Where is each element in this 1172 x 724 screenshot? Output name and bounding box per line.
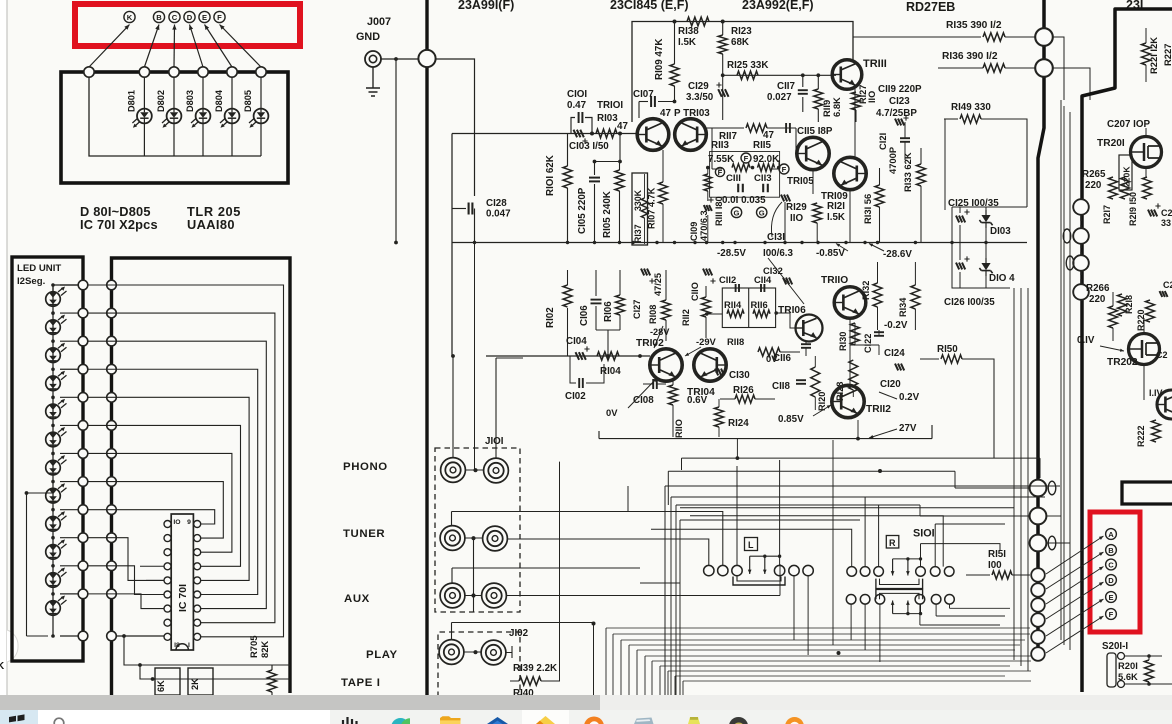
svg-text:R: R [889, 538, 896, 548]
label 1.5K [678, 37, 696, 48]
svg-text:82K: 82K [259, 641, 270, 658]
contact S201a [1118, 653, 1125, 660]
lead arrow to F [220, 25, 262, 68]
pointer -28V [654, 326, 663, 348]
svg-text:CI32: CI32 [763, 265, 783, 276]
svg-text:IIO: IIO [867, 91, 877, 103]
wire [671, 497, 1045, 697]
svg-text:CII6: CII6 [773, 353, 792, 364]
svg-text:IIO: IIO [790, 213, 803, 224]
switch contact L3 [732, 565, 742, 575]
label R116 [751, 299, 768, 310]
resistor R218 [1118, 294, 1135, 316]
svg-text:RI23: RI23 [731, 26, 752, 37]
svg-text:CI02: CI02 [565, 391, 586, 402]
IC pin left 15 [164, 591, 171, 598]
task icon orange2 [785, 717, 804, 724]
label R227 [1162, 44, 1172, 66]
svg-text:R266: R266 [1086, 283, 1110, 294]
resistor R124 [715, 399, 750, 437]
scrollbar track [0, 695, 1172, 710]
LED D802 [162, 109, 181, 128]
svg-text:CII2: CII2 [719, 274, 736, 285]
svg-text:-0.85V: -0.85V [816, 248, 845, 259]
pin circle M11 [107, 561, 117, 571]
wire base TR105 [706, 127, 744, 129]
task icon pencil [688, 717, 700, 724]
svg-text:220: 220 [1085, 180, 1102, 191]
pointer 0V [628, 378, 657, 408]
LED unit diode 6 [46, 427, 67, 447]
resistor R111 [704, 168, 714, 243]
label 0.1V [1077, 335, 1095, 346]
svg-text:2K: 2K [190, 678, 200, 690]
search bar [38, 710, 330, 724]
svg-text:27V: 27V [899, 423, 917, 434]
svg-text:23CI845 (E,F): 23CI845 (E,F) [610, 0, 689, 12]
junction [618, 132, 622, 136]
LED unit diode 5 [46, 399, 67, 419]
resistor R221 [1142, 28, 1151, 82]
LED D805 [249, 109, 268, 128]
wire [124, 636, 290, 665]
transistor TR111 [832, 60, 862, 90]
label C111 [726, 173, 741, 184]
label -0.2V [884, 320, 908, 331]
svg-text:TRIIO: TRIIO [821, 275, 848, 286]
svg-text:RI2I: RI2I [827, 201, 845, 212]
svg-text:TRI06: TRI06 [778, 305, 806, 316]
resistor R217 [1102, 177, 1118, 224]
label 1.1V [1149, 388, 1163, 398]
box 220K [1119, 155, 1132, 190]
J102 dashed box [438, 632, 520, 697]
wire [676, 505, 1029, 697]
svg-text:-0.2V: -0.2V [884, 320, 908, 331]
resistor R116 [753, 310, 770, 317]
resistor R118 [758, 348, 800, 356]
label C207 10P [1107, 119, 1150, 130]
svg-text:RI02: RI02 [545, 307, 556, 328]
resistor R113b [706, 164, 781, 172]
resistor R151 [966, 571, 1030, 579]
resistor R115b [758, 164, 775, 172]
resistor R133 [917, 148, 926, 243]
svg-text:RI03: RI03 [597, 113, 618, 124]
svg-text:33: 33 [1161, 218, 1171, 228]
LED board box [61, 72, 288, 183]
label C109 470/63 [689, 210, 709, 241]
switch contact R11 [931, 595, 941, 605]
wire [1053, 37, 1090, 100]
connector ring B1 [1073, 199, 1089, 215]
ground [366, 67, 380, 96]
svg-text:B: B [156, 13, 162, 22]
label C110 [690, 282, 700, 301]
start tile [0, 710, 38, 724]
label 0.047 [486, 209, 511, 220]
wire net r8 [88, 482, 223, 539]
wire K bus [89, 77, 261, 156]
arrow to B [1046, 552, 1104, 589]
junction [763, 241, 766, 244]
row wire [51, 508, 83, 512]
pin circle L13 [78, 631, 88, 641]
junction [950, 241, 953, 244]
wire [952, 207, 1027, 243]
jack J007 [365, 51, 381, 67]
electrolytic C125 [956, 209, 970, 222]
svg-text:CIII: CIII [726, 173, 741, 184]
switch contact R7 [846, 595, 856, 605]
svg-text:CI09: CI09 [689, 222, 699, 241]
lead arrow to D [189, 25, 203, 68]
LED D804 [220, 109, 239, 128]
junction [816, 241, 819, 244]
label 100/6.3 [763, 248, 794, 259]
label TR109 [821, 191, 848, 202]
svg-text:RI37: RI37 [633, 224, 643, 243]
transistor TR109 [834, 157, 866, 189]
label TR112 [866, 404, 891, 415]
pin label 9 [187, 519, 191, 526]
capacitor C117 [798, 75, 808, 112]
label C127 [632, 300, 642, 319]
svg-text:C2: C2 [1156, 350, 1168, 360]
transistor TR202 fet [1129, 334, 1160, 365]
jack aux R [482, 583, 507, 608]
label R265 220 [1082, 169, 1106, 191]
LED unit diode 10 [46, 539, 67, 559]
jack tuner R [483, 526, 508, 551]
terminal A [1106, 529, 1117, 540]
LED unit diode 7 [46, 455, 67, 475]
label D804 [214, 89, 224, 112]
svg-text:CI23: CI23 [889, 96, 910, 107]
wire [559, 461, 561, 463]
label 47 [617, 121, 628, 132]
svg-text:68K: 68K [731, 37, 749, 48]
label TAPE I [341, 677, 380, 689]
pin label 1 [188, 642, 190, 649]
svg-text:RI04: RI04 [600, 366, 621, 377]
switch R arrows down [891, 557, 922, 575]
svg-text:C: C [1108, 561, 1114, 570]
svg-text:GND: GND [356, 31, 380, 43]
svg-text:J007: J007 [367, 16, 391, 28]
svg-text:CI20: CI20 [880, 379, 901, 390]
svg-text:CI03 I/50: CI03 I/50 [569, 141, 609, 152]
svg-text:RI08: RI08 [648, 305, 658, 324]
label R266 220 [1086, 283, 1110, 305]
label R105 240K [602, 191, 613, 238]
junction [844, 241, 847, 244]
arrow to C [1046, 567, 1104, 605]
capacitor C115b [786, 123, 790, 133]
resistor R109 [670, 22, 679, 102]
svg-text:R705: R705 [248, 636, 259, 658]
wire [795, 128, 797, 154]
junction [593, 241, 596, 244]
svg-text:G: G [734, 208, 740, 217]
row wire [51, 480, 83, 484]
svg-text:I: I [188, 642, 190, 649]
wire R135 feed [853, 36, 981, 38]
transistor TR104 [694, 349, 726, 381]
label TUNER [343, 528, 385, 540]
lead arrow to E [205, 25, 233, 68]
LED unit diode 8 [46, 483, 67, 503]
label D802 [156, 90, 166, 112]
wire net r2 [88, 313, 275, 623]
red annotation box 1 [75, 4, 300, 46]
label R135 390 1/2 [946, 20, 1002, 31]
svg-text:23A992(E,F): 23A992(E,F) [742, 0, 814, 12]
wire net r3 [88, 341, 266, 608]
svg-text:RII3: RII3 [711, 140, 730, 151]
junction [590, 132, 594, 136]
wire [593, 134, 622, 164]
wire [640, 582, 680, 584]
resistor R139 [510, 677, 560, 685]
transistor TR106 [796, 315, 823, 342]
label R box [886, 536, 899, 549]
wire [143, 77, 145, 156]
bus 27V [599, 425, 932, 460]
label C112 [719, 274, 736, 285]
label TR101 [597, 100, 623, 111]
svg-text:4.7/25BP: 4.7/25BP [876, 108, 917, 119]
wire pin18 drop [0, 0, 1, 1]
label L box [745, 538, 758, 551]
svg-text:D805: D805 [243, 90, 253, 112]
electrolytic C130 [715, 369, 724, 376]
label C119 220P [878, 84, 922, 95]
svg-text:TR20I: TR20I [1097, 138, 1125, 149]
label R101 62K [545, 155, 556, 196]
wire [138, 663, 290, 681]
resistor 2K box [188, 668, 213, 695]
svg-text:RI50: RI50 [937, 344, 958, 355]
row wire [51, 339, 83, 343]
circled F3 [715, 167, 724, 177]
connector ring B4 [1073, 284, 1089, 300]
label C103 1/50 [569, 141, 609, 152]
wire [785, 89, 855, 243]
label C2c [1156, 350, 1168, 360]
svg-text:RI25 33K: RI25 33K [727, 60, 768, 71]
arrow to F [1046, 616, 1104, 653]
svg-text:RI06: RI06 [603, 301, 614, 322]
pin label 10 [173, 519, 180, 526]
task icon dark [729, 717, 748, 724]
chat icon [343, 717, 357, 724]
heavy rail right [1038, 0, 1044, 660]
rail top [632, 22, 853, 123]
svg-text:D: D [187, 13, 193, 22]
resistor R125 [737, 71, 758, 79]
highlight tile [522, 710, 569, 724]
label 755K [708, 154, 734, 165]
label S101 [913, 528, 935, 540]
rail -28.5V [452, 242, 1027, 244]
electrolytic C132 [783, 278, 792, 285]
svg-text:IC 70I X2pcs: IC 70I X2pcs [80, 217, 158, 232]
bridge box R114 R116 [722, 288, 775, 328]
label R133 62K [902, 152, 913, 192]
svg-text:R2I9 I50: R2I9 I50 [1128, 192, 1138, 226]
wire [668, 471, 1029, 488]
label D104 [989, 273, 1015, 284]
svg-text:CI05 220P: CI05 220P [577, 187, 588, 234]
label C125 100/35 [948, 198, 999, 209]
svg-text:CII7: CII7 [777, 81, 796, 92]
svg-text:F: F [782, 165, 787, 174]
capacitor C121 [900, 122, 910, 160]
resistor R120 [811, 367, 827, 411]
wire [651, 529, 852, 566]
label TR110 [821, 275, 848, 286]
resistor R201 [1145, 660, 1154, 682]
pointer 0.85V [813, 405, 831, 416]
label 4.7/25BP [876, 108, 917, 119]
svg-text:I.5K: I.5K [678, 37, 696, 48]
row wire [51, 367, 83, 371]
wire [473, 539, 475, 613]
svg-text:G: G [759, 208, 765, 217]
wire [680, 507, 1014, 509]
svg-text:TRII2: TRII2 [866, 404, 891, 415]
label C123 [889, 96, 910, 107]
pin circle L3 [78, 336, 88, 346]
task icon orange ring [584, 717, 604, 724]
junction ring [418, 50, 435, 67]
svg-text:0.0I 0.035: 0.0I 0.035 [722, 195, 766, 206]
label S201-1 [1102, 641, 1128, 652]
wire [627, 486, 629, 512]
svg-text:92.0K: 92.0K [753, 154, 779, 165]
resistor R705 [268, 665, 277, 697]
junction [673, 20, 725, 24]
label TLR205 [187, 204, 241, 219]
pointer -28.6V [869, 244, 884, 252]
capacitor C116 [801, 341, 811, 356]
IC pin left 13 [164, 563, 171, 570]
label R111 180 [714, 196, 724, 226]
junction [693, 241, 696, 244]
wire [920, 604, 1010, 625]
svg-text:RI39 2.2K: RI39 2.2K [513, 663, 557, 674]
terminal label D [184, 11, 195, 22]
label R109 47K [654, 39, 665, 80]
svg-text:IO: IO [173, 519, 180, 526]
resistor R138 [687, 17, 709, 26]
pin circle 3 on LED board [169, 67, 179, 77]
wire aux out [506, 595, 780, 597]
label C108 [633, 395, 654, 406]
task icon folder [440, 716, 461, 724]
label R108 [648, 305, 658, 324]
wire [705, 311, 796, 328]
svg-text:D: D [1108, 576, 1114, 585]
resistor R132 [873, 262, 882, 330]
terminal F [1106, 609, 1117, 620]
svg-text:CIIO: CIIO [690, 282, 700, 301]
svg-text:CI07: CI07 [633, 89, 654, 100]
LED UNIT box [12, 257, 83, 661]
LED unit diode 1 [46, 287, 67, 307]
svg-text:PLAY: PLAY [366, 649, 398, 661]
svg-text:RI49 330: RI49 330 [951, 102, 991, 113]
row wire [51, 396, 83, 400]
svg-text:RI5I: RI5I [988, 549, 1006, 560]
circled F2 [779, 164, 789, 174]
label 23right [1126, 0, 1143, 12]
electrolytic R129e [781, 195, 790, 202]
wire [690, 516, 943, 567]
taskbar [0, 710, 1172, 724]
J101 dashed box [435, 448, 520, 612]
resistor R150 [858, 355, 994, 458]
svg-text:-28.6V: -28.6V [883, 249, 912, 260]
svg-text:23A99I(F): 23A99I(F) [458, 0, 514, 12]
resistor R136 [938, 64, 1035, 72]
svg-text:RD27EB: RD27EB [906, 0, 955, 14]
junction [914, 241, 917, 244]
junction [631, 241, 634, 244]
label TR102 [636, 338, 664, 349]
svg-text:TUNER: TUNER [343, 528, 385, 540]
svg-text:JI02: JI02 [509, 628, 529, 639]
label C130 [729, 370, 750, 381]
transistor TR102 [650, 349, 682, 381]
pin circle M12 [107, 589, 117, 599]
main divider line [425, 0, 428, 697]
svg-text:0.6V: 0.6V [687, 395, 708, 406]
resistor R134 [911, 262, 920, 330]
circled F1 [741, 153, 751, 163]
junction [618, 241, 621, 244]
capacitor C114 [761, 284, 764, 292]
pin circle M5 [107, 393, 117, 403]
svg-text:TRIOI: TRIOI [597, 100, 623, 111]
jack play L [439, 640, 464, 665]
wire net l3 [88, 594, 164, 609]
label TR111 [863, 58, 887, 70]
junction [592, 622, 596, 626]
resistor R117 [746, 124, 767, 132]
label R201 5.6K [1118, 660, 1138, 682]
label R107 4.7K [647, 187, 657, 229]
switch contact R6 [944, 567, 954, 577]
svg-text:S20I-I: S20I-I [1102, 641, 1128, 652]
wire [606, 628, 683, 697]
pin circle L6 [78, 421, 88, 431]
transistor TR201 fet [1131, 137, 1162, 168]
svg-text:RI34: RI34 [898, 297, 908, 317]
wire [1061, 100, 1070, 650]
resistor 6K box [155, 668, 180, 695]
circled G1 [731, 207, 741, 217]
label PHONO [343, 461, 388, 473]
svg-text:47/25: 47/25 [653, 273, 663, 296]
resistor R105 [615, 162, 624, 243]
svg-text:R20I: R20I [1118, 660, 1138, 671]
pin circle M4 [107, 364, 117, 374]
svg-text:CII3: CII3 [754, 173, 772, 184]
wire [665, 486, 1060, 697]
junction [876, 241, 879, 244]
